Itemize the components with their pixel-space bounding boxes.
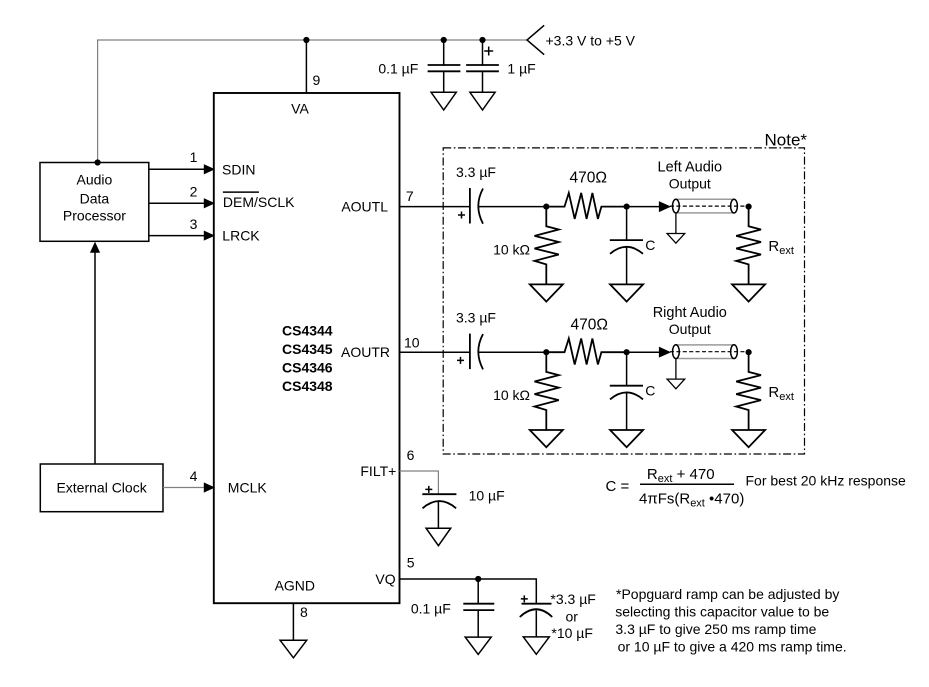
node junction left C [624,204,630,210]
SECTION: left boxes [40,149,214,512]
node junction left Rext [746,204,752,210]
note dashed border box [443,148,804,454]
wire pin 9 to VA [305,40,307,93]
svg-text:9: 9 [313,72,321,88]
SECTION: note box left channel [400,131,808,454]
svg-text:AGND: AGND [275,577,315,593]
svg-text:10: 10 [404,335,420,351]
capacitor 0.1 uF VQ [463,604,494,610]
node supply junction at Audio Data Processor [95,159,101,165]
wire FILT+ to cap (gray) [400,471,439,494]
wire MCLK (gray) [163,487,205,489]
wire 0.1uF VQ to ground [477,610,479,637]
resistor 470 ohm left (series) [546,193,626,219]
svg-text:10 kΩ: 10 kΩ [493,242,530,258]
wire junction to output arrow left [627,206,660,208]
svg-text:C: C [645,383,655,399]
svg-text:Output: Output [669,175,711,191]
svg-text:C: C [645,237,655,253]
svg-text:For best 20 kHz response: For best 20 kHz response [746,472,907,488]
svg-text:*Popguard ramp can be adjusted: *Popguard ramp can be adjusted by [616,586,839,602]
svg-text:470Ω: 470Ω [570,169,607,186]
ground under C2 [470,92,495,110]
wire AOUTL pin 7 [400,206,470,208]
polarity plus VQ cap [521,595,528,602]
svg-text:7: 7 [406,188,414,204]
wire junction to C cap left [626,207,628,241]
svg-text:Note*: Note* [765,131,808,150]
wire AOUTR pin 10 [400,351,470,353]
arrowhead LRCK [204,231,214,240]
svg-text:3.3 µF to give 250 ms ramp tim: 3.3 µF to give 250 ms ramp time [615,621,816,637]
connector right jack rear ellipse [731,345,738,359]
svg-text:1: 1 [190,149,198,165]
svg-text:3.3 µF: 3.3 µF [456,164,496,180]
connector left audio jack body (gray) [676,199,734,213]
wire SDIN [149,168,205,170]
svg-text:CS4344: CS4344 [282,322,333,338]
resistor 470 ohm right (series) [546,339,626,365]
wire cap to 10k junction right [478,351,546,353]
arrowhead DEM/SCLK [204,199,214,208]
SECTION: formula and notes [606,466,907,655]
node junction right Rext [746,349,752,355]
svg-text:10 kΩ: 10 kΩ [493,387,530,403]
wire rail to C2 top [482,40,484,65]
polarity plus 3.3 uF left [458,212,465,219]
ground under Rext left [732,284,765,301]
arrowhead right output [659,348,670,357]
node VQ junction [475,576,481,582]
wire junction to 0.1uF VQ [477,579,479,604]
ground right jack shield [667,379,685,389]
svg-text:0.1 µF: 0.1 µF [378,60,418,76]
svg-text:Output: Output [669,321,711,337]
connector right jack front ellipse [673,345,680,359]
capacitor C left (filter) [610,240,643,254]
svg-text:Audio: Audio [76,172,112,188]
capacitor C2 1 uF [467,65,498,71]
ground left jack shield [667,234,685,244]
svg-text:4: 4 [190,468,198,484]
ground under 10 uF [426,528,451,546]
SECTION: power rail [95,26,636,166]
wire External Clock to Audio Data Processor [94,251,96,464]
svg-text:Data: Data [80,191,110,207]
SECTION: note box right channel [400,305,794,447]
IC U1 CS4344/45/46/48 DAC body [214,93,400,603]
svg-text:CS4348: CS4348 [282,378,333,394]
ground under VQ cap [523,637,549,654]
arrowhead left output [659,202,670,211]
svg-text:or 10 µF to give a 420 ms ramp: or 10 µF to give a 420 ms ramp time. [618,639,847,655]
wire left jack shield stub [675,213,677,234]
wire LRCK [149,235,205,237]
resistor Rext right [736,352,761,430]
resistor 10 kohm right (shunt) [535,352,559,430]
wire VQ rail [400,579,537,604]
arrowhead MCLK [204,483,214,492]
ground under C right [610,430,643,447]
connector left center conductor (dashed) [670,205,746,207]
wire C left to ground [626,248,628,285]
svg-text:6: 6 [407,447,415,463]
node junction right 10k [543,349,549,355]
connector right audio jack body (gray) [676,345,734,359]
svg-text:AOUTL: AOUTL [341,199,388,215]
power connector +3.3V to +5V [527,26,544,54]
overline for DEM [223,191,259,193]
wire VA supply rail (gray) [98,40,527,162]
svg-text:CS4346: CS4346 [282,360,333,376]
svg-text:Processor: Processor [63,208,126,224]
svg-text:2: 2 [190,183,198,199]
wire DEM/SCLK [149,202,205,204]
wire right jack shield stub [675,359,677,380]
ground under C1 [431,92,456,110]
capacitor 3.3/10 uF VQ (polarized) [520,604,552,617]
block Audio Data Processor [40,163,149,242]
wire C right to ground [626,393,628,430]
node junction right C [624,349,630,355]
node 1uF cap junction [479,37,485,43]
polarity plus C2 [485,47,492,54]
svg-text:Right Audio: Right Audio [653,305,727,321]
svg-text:selecting this capacitor value: selecting this capacitor value to be [615,604,829,620]
block External Clock [40,464,163,512]
svg-text:MCLK: MCLK [228,480,268,496]
svg-text:5: 5 [407,555,415,571]
svg-text:0.1 µF: 0.1 µF [411,600,451,616]
polarity plus 10 uF [425,486,432,493]
ground under Rext right [732,430,765,447]
wire junction to C cap right [626,352,628,386]
svg-text:VA: VA [291,100,309,116]
SECTION: main IC [214,93,400,658]
ground AGND [280,640,307,658]
SECTION: filt vq bottom [400,447,596,654]
svg-text:LRCK: LRCK [222,228,260,244]
wire C1 bottom to ground [443,71,445,92]
wire VQ cap to ground [535,611,537,637]
ground under 10k right [530,430,563,447]
capacitor 10 uF FILT+ (polarized) [422,494,456,508]
svg-text:1 µF: 1 µF [507,60,535,76]
capacitor 3.3 uF right (polarized, series) [470,334,483,370]
wire junction to output arrow right [627,351,660,353]
svg-text:*3.3 µF: *3.3 µF [550,591,595,607]
wire 10 uF to ground [437,502,439,528]
resistor Rext left [736,207,761,285]
svg-text:or: or [566,608,579,624]
arrowhead SDIN [204,165,214,174]
svg-text:Rext + 470: Rext + 470 [647,466,715,485]
formula fraction bar [640,483,734,485]
svg-text:FILT+: FILT+ [360,463,396,479]
svg-text:3.3 µF: 3.3 µF [456,310,496,326]
svg-text:External Clock: External Clock [56,479,147,495]
svg-text:+3.3 V to +5 V: +3.3 V to +5 V [546,32,636,48]
resistor 10 kohm left (shunt) [535,207,559,285]
svg-text:8: 8 [300,604,308,620]
wire AGND to ground [292,603,294,640]
connector left jack front ellipse [673,199,680,213]
svg-text:*10 µF: *10 µF [551,625,593,641]
wire rail to C1 top [443,40,445,65]
arrowhead up into Audio Data Processor [91,243,100,253]
svg-text:470Ω: 470Ω [571,317,608,334]
svg-text:C =: C = [606,478,630,495]
wire C2 bottom to ground [482,71,484,92]
node VA pin junction [303,37,309,43]
svg-text:DEM/SCLK: DEM/SCLK [223,194,295,210]
connector left jack rear ellipse [731,199,738,213]
svg-text:3: 3 [190,216,198,232]
node junction left 10k [543,204,549,210]
ground under 0.1uF VQ [465,637,491,654]
svg-text:SDIN: SDIN [222,162,255,178]
polarity plus 3.3 uF right [457,357,464,364]
svg-text:Left Audio: Left Audio [658,159,723,175]
node 0.1uF cap junction [441,37,447,43]
svg-text:CS4345: CS4345 [282,341,333,357]
wire cap to 10k junction [478,206,546,208]
svg-text:AOUTR: AOUTR [341,344,390,360]
capacitor C right (filter) [610,386,643,400]
capacitor C1 0.1 uF [429,65,460,71]
svg-text:10 µF: 10 µF [469,487,505,503]
ground under C left [610,284,643,301]
capacitor 3.3 uF left (polarized, series) [470,188,483,224]
svg-text:VQ: VQ [375,571,395,587]
connector right center conductor (dashed) [670,351,746,353]
ground under 10k left [530,284,563,301]
